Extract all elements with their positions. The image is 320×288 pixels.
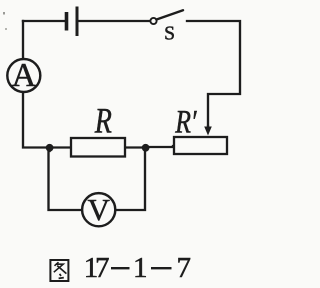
svg-text:S: S [164,23,175,44]
svg-text:R: R [94,100,112,140]
svg-text:A: A [12,57,37,94]
svg-text:7: 7 [177,252,192,284]
svg-text:7: 7 [95,252,110,284]
svg-text:1: 1 [133,252,148,284]
svg-text:R′: R′ [174,104,197,140]
svg-text:V: V [88,192,111,227]
